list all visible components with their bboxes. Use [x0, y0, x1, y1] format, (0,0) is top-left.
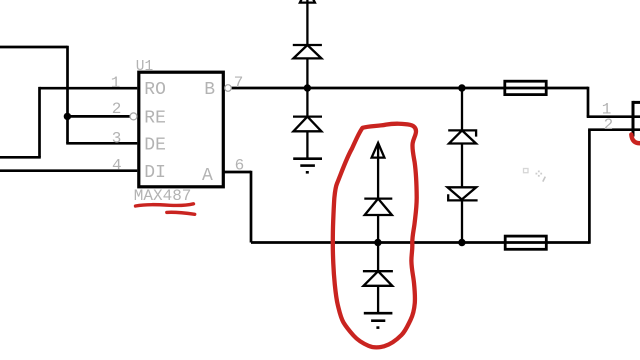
diode D2 triangle	[293, 117, 321, 132]
wire RE branch	[68, 115, 131, 118]
wire TVS top	[461, 88, 463, 130]
svg-text:3: 3	[112, 129, 122, 147]
ground G1 bar2	[300, 164, 315, 167]
wire D3 to bus	[377, 215, 379, 243]
junction B / TVS top	[458, 84, 465, 91]
wire arrow to D1	[306, 0, 308, 45]
connector J1 left edge	[632, 101, 635, 137]
svg-text:MAX487: MAX487	[134, 187, 192, 205]
wire vertical x39	[38, 87, 41, 157]
svg-text:1: 1	[111, 74, 121, 92]
ground G2 bar3	[376, 326, 379, 329]
connector J1 top edge	[633, 101, 640, 104]
wire top-left horizontal	[0, 46, 68, 49]
diode D3 cathode bar	[364, 197, 392, 199]
wire arrow to D3	[377, 144, 379, 199]
svg-text:B: B	[204, 80, 215, 100]
ground G2 bar2	[371, 319, 385, 322]
junction at RE branch	[64, 113, 71, 120]
IC U1 MAX487 body	[139, 72, 224, 187]
svg-text:6: 6	[235, 157, 245, 175]
zener Z1 cathode bar	[448, 130, 476, 136]
wire DE	[66, 142, 137, 145]
wire net A bus	[251, 241, 589, 244]
ground G1 bar1	[293, 157, 322, 160]
zener Z2 triangle	[448, 187, 477, 199]
wire bus to D4	[377, 243, 379, 272]
junction bus / TVS bottom	[458, 239, 465, 246]
svg-text:DI: DI	[144, 163, 166, 183]
red underline 1 under MAX487	[136, 204, 194, 206]
red underline 2 under MAX487	[167, 212, 195, 214]
red arc at connector	[631, 135, 640, 144]
wire D4 to ground	[377, 286, 379, 313]
watermark speck square	[524, 169, 529, 173]
wire left y157	[0, 156, 41, 159]
diode D1 cathode bar	[293, 44, 322, 46]
ground G1 bar3	[306, 171, 309, 174]
wire junction to D2	[306, 88, 308, 117]
svg-text:A: A	[202, 166, 213, 186]
svg-text:2: 2	[112, 100, 122, 118]
wire connector pin2	[588, 128, 640, 131]
wire pin2 vertical	[588, 130, 591, 244]
arrow head top column (clipped)	[300, 0, 315, 3]
svg-text:7: 7	[234, 74, 244, 92]
wire TVS bottom	[461, 200, 463, 242]
arrow head mid column	[372, 143, 385, 158]
svg-text:DE: DE	[144, 136, 166, 156]
svg-text:U1: U1	[136, 59, 153, 75]
wire RO	[40, 87, 138, 90]
wire vertical x67	[66, 46, 69, 144]
diode D4 cathode bar	[363, 270, 393, 272]
watermark speck stroke	[543, 177, 546, 182]
wire connector pin1	[587, 115, 640, 118]
wire between zeners	[461, 144, 463, 188]
wire A corner down	[250, 171, 253, 243]
RE inverting bubble	[130, 113, 137, 120]
wire B corner down	[587, 87, 590, 117]
ground G2 bar1	[364, 312, 393, 315]
B inverting bubble	[225, 85, 232, 92]
wire pin A horizontal	[223, 171, 251, 174]
diode D2 cathode bar	[293, 115, 322, 117]
watermark speck diamond	[536, 171, 543, 177]
diode D3 triangle	[365, 199, 392, 215]
fuse F2	[505, 236, 546, 249]
diode D4 triangle	[364, 271, 393, 286]
svg-text:RE: RE	[144, 109, 166, 129]
svg-text:2: 2	[604, 116, 614, 134]
zener Z2 cathode bar	[448, 194, 477, 200]
junction bus / mid diode column	[374, 239, 381, 246]
wire D1 to junction	[306, 58, 308, 88]
diode D1 triangle	[293, 45, 321, 58]
zener Z1 triangle	[449, 130, 476, 143]
red annotation circle around mid diode chain	[333, 124, 417, 348]
wire D2 to ground	[306, 131, 308, 158]
junction B / top diode column	[304, 84, 311, 91]
svg-text:4: 4	[112, 157, 122, 175]
fuse F1	[505, 81, 546, 94]
wire DI	[0, 169, 137, 172]
svg-text:RO: RO	[144, 80, 166, 100]
wire net B horizontal	[231, 87, 588, 90]
